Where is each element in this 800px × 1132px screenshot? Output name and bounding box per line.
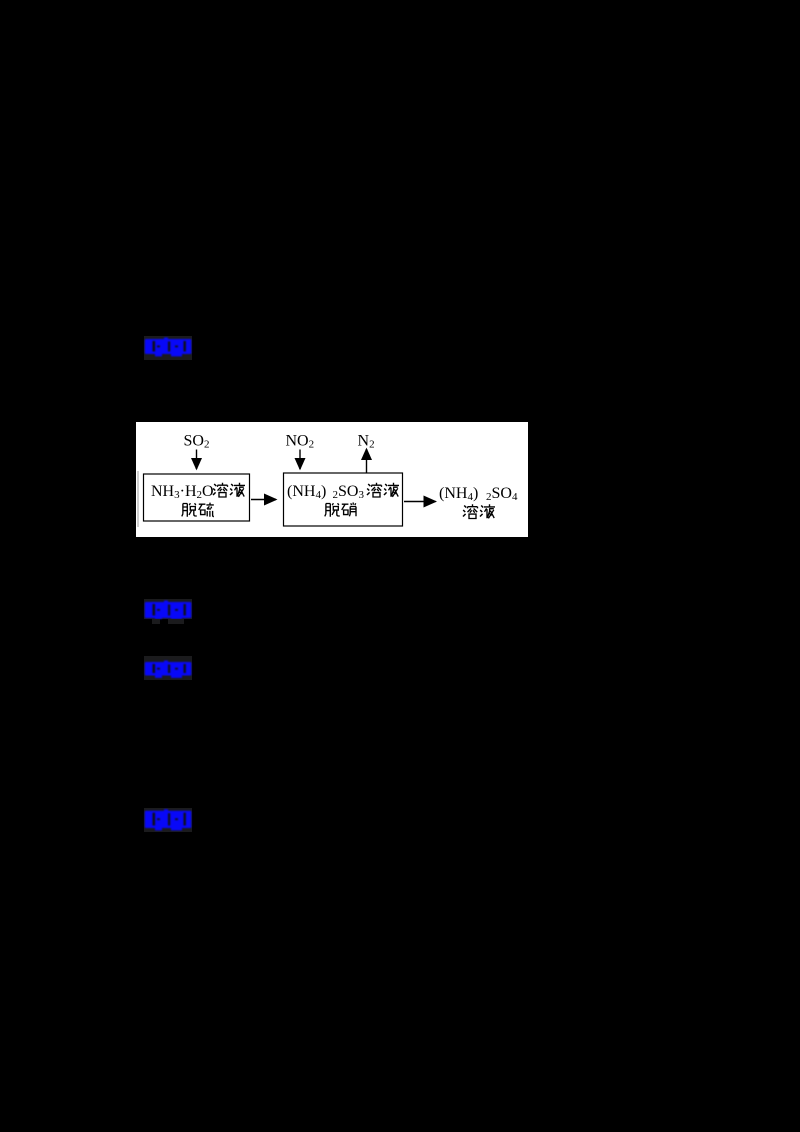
answer label 1 highlight 【答案】: [144, 336, 192, 360]
svg-text:NH3·H2O: NH3·H2O: [151, 483, 214, 501]
svg-text:(NH4): (NH4): [439, 485, 478, 503]
text 溶液 (product): [463, 504, 478, 518]
answer label 4 highlight 【解析】: [144, 808, 192, 832]
diagram panel (white image): [136, 422, 528, 537]
svg-text:SO2: SO2: [184, 433, 210, 451]
answer label 3 highlight 【解析】: [144, 656, 192, 680]
faint left border artifact: [137, 471, 139, 527]
arrow SO2 down: [196, 450, 198, 470]
text 溶液 (box2): [367, 483, 382, 497]
arrow box2 to product: [404, 501, 436, 503]
box B1: NH3·H2O solution desulfurization: [144, 474, 250, 521]
svg-text:SO3: SO3: [338, 483, 364, 501]
highlight tab under label 2 (right): [168, 619, 184, 624]
text 溶液 (box1): [213, 483, 228, 497]
arrow NO2 down: [299, 450, 301, 470]
highlight tab under label 2 (left): [152, 619, 160, 624]
svg-text:SO4: SO4: [492, 485, 518, 503]
svg-text:NO2: NO2: [286, 433, 315, 451]
arrow N2 up: [366, 449, 368, 473]
svg-text:N2: N2: [358, 433, 375, 451]
answer label 2 highlight 【答案】: [144, 599, 192, 619]
box B2: (NH4)2SO3 solution denitrification: [284, 473, 403, 526]
text 脱硫: [182, 503, 197, 517]
arrow box1 to box2: [251, 499, 276, 501]
text 脱硝: [325, 503, 340, 517]
svg-text:(NH4): (NH4): [287, 483, 326, 501]
